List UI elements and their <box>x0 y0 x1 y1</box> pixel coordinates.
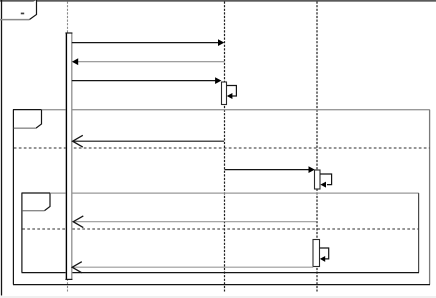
sd frame name pentagon <box>0 0 37 20</box>
message m5 line <box>225 169 310 171</box>
message m5 arrowhead <box>309 166 315 173</box>
message m7 line <box>74 266 314 268</box>
self message s2 loop on A3 <box>320 174 331 185</box>
frame bottom faint edge <box>0 296 436 298</box>
message m1 line <box>72 42 219 44</box>
self message s3 loop on A4 <box>320 248 329 259</box>
activation bar A1 on L1 <box>65 33 72 280</box>
lifeline L1 <box>67 2 69 292</box>
message m6 open arrowhead <box>73 216 83 228</box>
combined fragment F1 border <box>13 110 430 285</box>
activation bar A4 on L3 <box>313 240 320 267</box>
self message s1 loop on A2 <box>227 86 237 97</box>
message m2 arrowhead <box>72 58 78 65</box>
lifeline L2 <box>224 2 226 292</box>
frame left border <box>1 0 3 296</box>
frame top border <box>0 0 436 2</box>
message m4 open arrowhead <box>73 135 83 147</box>
activation bar A3 on L3 <box>315 170 321 189</box>
combined fragment F2 border <box>22 193 420 273</box>
message m3 line <box>72 80 216 82</box>
self message s1 arrowhead <box>227 93 233 99</box>
combined fragment F2 operator pentagon <box>22 193 50 210</box>
message m6 line <box>75 221 317 223</box>
message m7 open arrowhead <box>72 262 82 273</box>
lifeline L3 <box>316 2 318 292</box>
self message s2 arrowhead <box>320 182 326 188</box>
combined fragment F1 separator <box>14 147 430 149</box>
sd frame tiny label text <box>21 13 24 15</box>
message m2 line <box>78 61 225 63</box>
combined fragment F2 separator <box>22 228 418 230</box>
message m1 arrowhead <box>218 39 224 46</box>
activation bar A2 on L2 <box>222 82 227 105</box>
self message s3 arrowhead <box>320 256 325 262</box>
combined fragment F1 operator pentagon <box>14 110 42 128</box>
message m4 line <box>74 140 225 142</box>
message m3 arrowhead <box>215 77 221 84</box>
